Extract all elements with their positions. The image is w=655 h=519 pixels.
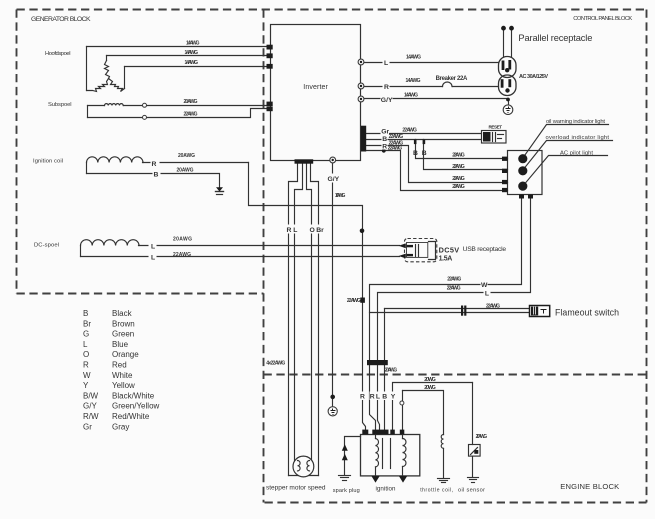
svg-text:Green/Yellow: Green/Yellow bbox=[112, 402, 160, 411]
svg-text:Subspoel: Subspoel bbox=[48, 102, 72, 108]
svg-text:oil sensor: oil sensor bbox=[458, 488, 485, 494]
svg-text:oil warning indicator light: oil warning indicator light bbox=[546, 119, 605, 125]
svg-text:20AWG: 20AWG bbox=[173, 236, 192, 242]
svg-text:L: L bbox=[384, 60, 388, 67]
svg-text:Green: Green bbox=[112, 330, 134, 339]
svg-text:L: L bbox=[485, 291, 489, 298]
svg-text:L: L bbox=[83, 340, 88, 349]
svg-text:R: R bbox=[382, 143, 387, 150]
svg-text:Y: Y bbox=[83, 381, 89, 390]
svg-text:Red/White: Red/White bbox=[112, 412, 150, 421]
svg-text:B: B bbox=[83, 309, 88, 318]
svg-text:14AWG: 14AWG bbox=[186, 40, 200, 46]
svg-text:Flameout switch: Flameout switch bbox=[555, 307, 619, 317]
svg-text:G/Y: G/Y bbox=[83, 402, 97, 411]
svg-text:22AWG: 22AWG bbox=[402, 127, 417, 133]
svg-text:DC5V: DC5V bbox=[439, 245, 460, 254]
svg-text:Brown: Brown bbox=[112, 319, 135, 328]
svg-text:DC-spoel: DC-spoel bbox=[34, 242, 59, 248]
svg-text:RESET: RESET bbox=[489, 125, 503, 130]
svg-text:14AWG: 14AWG bbox=[406, 54, 421, 60]
svg-text:B: B bbox=[382, 394, 387, 401]
svg-text:22AWG: 22AWG bbox=[184, 111, 198, 117]
svg-text:USB receptacle: USB receptacle bbox=[463, 246, 507, 253]
svg-text:B: B bbox=[154, 172, 159, 179]
svg-text:22AWG: 22AWG bbox=[486, 304, 500, 310]
svg-text:R: R bbox=[83, 361, 89, 370]
svg-text:B: B bbox=[382, 136, 387, 143]
svg-text:L: L bbox=[151, 243, 155, 250]
svg-text:20AWG: 20AWG bbox=[184, 99, 198, 105]
svg-text:L: L bbox=[151, 255, 155, 262]
svg-text:R: R bbox=[360, 394, 365, 401]
svg-text:14AWG: 14AWG bbox=[185, 60, 199, 66]
svg-text:G/Y: G/Y bbox=[328, 176, 340, 183]
svg-text:1.5A: 1.5A bbox=[439, 255, 453, 262]
svg-text:B: B bbox=[413, 150, 418, 157]
svg-text:20AWG: 20AWG bbox=[177, 168, 194, 174]
svg-text:R: R bbox=[370, 394, 375, 401]
svg-text:White: White bbox=[112, 371, 133, 380]
svg-text:ignition: ignition bbox=[376, 486, 397, 493]
svg-text:22AWG: 22AWG bbox=[388, 146, 403, 152]
svg-text:20WG: 20WG bbox=[424, 377, 436, 383]
svg-text:G/Y: G/Y bbox=[381, 97, 393, 104]
svg-text:22AWG: 22AWG bbox=[389, 134, 404, 140]
svg-text:CONTROL PANEL BLOCK: CONTROL PANEL BLOCK bbox=[573, 16, 632, 22]
svg-text:ENGINE BLOCK: ENGINE BLOCK bbox=[560, 482, 619, 491]
svg-text:Black/White: Black/White bbox=[112, 391, 155, 400]
svg-text:Parallel receptacle: Parallel receptacle bbox=[518, 33, 592, 43]
svg-text:throttle coil,: throttle coil, bbox=[420, 488, 453, 494]
svg-text:Black: Black bbox=[112, 309, 133, 318]
svg-text:G: G bbox=[83, 330, 89, 339]
svg-text:22AWG: 22AWG bbox=[447, 276, 461, 282]
svg-text:22AWG: 22AWG bbox=[452, 176, 465, 182]
svg-text:Gray: Gray bbox=[112, 422, 129, 431]
svg-text:14AWG: 14AWG bbox=[185, 50, 199, 56]
svg-text:R: R bbox=[384, 84, 389, 91]
svg-text:Br: Br bbox=[316, 227, 324, 234]
svg-text:L: L bbox=[293, 227, 297, 234]
svg-text:20AWG: 20AWG bbox=[178, 153, 195, 159]
svg-text:22AWG: 22AWG bbox=[452, 164, 465, 170]
svg-text:14AWG: 14AWG bbox=[406, 78, 421, 84]
svg-text:GENERATOR BLOCK: GENERATOR BLOCK bbox=[31, 16, 91, 23]
svg-text:overload indicator light: overload indicator light bbox=[546, 135, 610, 141]
svg-text:R/W: R/W bbox=[83, 412, 99, 421]
svg-text:W: W bbox=[83, 371, 91, 380]
svg-text:Hoofdspoel: Hoofdspoel bbox=[45, 51, 71, 57]
svg-text:22AWG: 22AWG bbox=[447, 286, 461, 292]
svg-text:Inverter: Inverter bbox=[303, 84, 328, 91]
svg-text:Breaker 22A: Breaker 22A bbox=[436, 76, 468, 82]
svg-text:4x22AWG: 4x22AWG bbox=[266, 360, 285, 366]
svg-text:Red: Red bbox=[112, 361, 127, 370]
svg-text:Yellow: Yellow bbox=[112, 381, 135, 390]
svg-text:O: O bbox=[310, 227, 315, 234]
svg-text:20AWG: 20AWG bbox=[476, 434, 488, 440]
svg-text:R: R bbox=[287, 227, 292, 234]
svg-text:Br: Br bbox=[83, 319, 91, 328]
svg-text:AC pilot light: AC pilot light bbox=[560, 150, 593, 156]
svg-text:Ignition coil: Ignition coil bbox=[33, 159, 63, 165]
svg-text:Y: Y bbox=[391, 394, 396, 401]
svg-text:O: O bbox=[83, 350, 89, 359]
svg-text:AC 30A/125V: AC 30A/125V bbox=[519, 74, 548, 80]
svg-text:B: B bbox=[422, 150, 427, 157]
svg-text:22AWG: 22AWG bbox=[452, 184, 465, 190]
svg-text:W: W bbox=[481, 282, 488, 289]
svg-text:22AWG: 22AWG bbox=[452, 152, 465, 158]
svg-text:20WG: 20WG bbox=[424, 385, 436, 391]
svg-text:Gr: Gr bbox=[83, 422, 92, 431]
svg-text:R: R bbox=[152, 161, 157, 168]
svg-text:B/W: B/W bbox=[83, 391, 99, 400]
svg-text:L: L bbox=[376, 394, 380, 401]
svg-text:stepper motor speed: stepper motor speed bbox=[266, 485, 326, 492]
svg-text:20AWG: 20AWG bbox=[385, 368, 398, 374]
svg-text:14AWG: 14AWG bbox=[404, 92, 418, 98]
svg-text:14AWG: 14AWG bbox=[335, 193, 346, 199]
svg-text:22AWG: 22AWG bbox=[347, 298, 361, 304]
svg-text:Orange: Orange bbox=[112, 350, 139, 359]
svg-text:Blue: Blue bbox=[112, 340, 129, 349]
svg-text:spark plug: spark plug bbox=[333, 488, 360, 494]
svg-text:22AWG: 22AWG bbox=[173, 252, 191, 258]
